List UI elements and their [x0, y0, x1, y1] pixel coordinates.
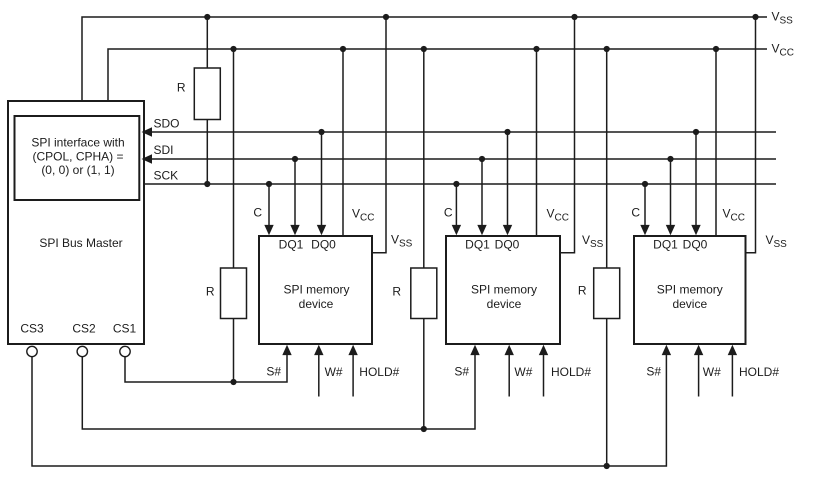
svg-text:DQ0: DQ0 [495, 238, 520, 252]
svg-text:VSS: VSS [766, 233, 788, 250]
svg-text:W#: W# [514, 365, 532, 379]
svg-text:VCC: VCC [547, 207, 569, 224]
svg-text:SCK: SCK [154, 169, 179, 183]
svg-text:HOLD#: HOLD# [551, 365, 591, 379]
svg-text:R: R [177, 81, 186, 95]
svg-text:SDO: SDO [154, 117, 180, 131]
svg-text:DQ1: DQ1 [653, 238, 678, 252]
svg-text:VCC: VCC [772, 42, 794, 59]
net VSS (top bus line with label) [82, 10, 793, 102]
wire CS3 to device 3 S# [32, 345, 671, 466]
device 3 pin W# stub [694, 345, 721, 397]
svg-text:VSS: VSS [391, 233, 413, 250]
wire CS2 to device 2 S# [82, 345, 479, 429]
device 2 pin VCC wire from VCC bus [533, 46, 569, 236]
svg-text:R: R [578, 284, 587, 298]
device 3 pin VSS wire to VSS bus [746, 14, 788, 253]
svg-text:device: device [299, 297, 334, 311]
device 3 pin DQ1 wire from SDI [666, 156, 675, 235]
svg-text:DQ0: DQ0 [311, 238, 336, 252]
svg-text:R: R [392, 285, 401, 299]
svg-text:SPI Bus Master: SPI Bus Master [39, 236, 122, 250]
device 2 pin HOLD# stub [539, 345, 592, 397]
net VCC (second bus line with label) [108, 42, 794, 102]
device 1 pin W# stub [314, 345, 343, 397]
svg-text:S#: S# [266, 365, 281, 379]
device 1 pin C wire from SCK [253, 181, 273, 235]
resistor R (device 2 S# pull-up to VCC) [392, 46, 436, 432]
svg-text:SDI: SDI [154, 143, 174, 157]
SPI memory device 1 box [259, 236, 372, 344]
device 3 pin C wire from SCK [631, 181, 649, 235]
svg-text:device: device [487, 297, 522, 311]
pin CS2 (label and terminal circle) [72, 322, 96, 357]
SPI memory device 2 box [446, 236, 560, 344]
device 3 pin DQ0 wire from SDO [691, 129, 700, 235]
resistor R (device 1 S# pull-up to VCC) [206, 46, 247, 385]
SPI memory device 3 box [634, 236, 746, 344]
device 1 pin DQ1 wire from SDI [290, 156, 299, 235]
net SDO (bus line with arrowhead into master) [142, 117, 777, 137]
svg-text:(CPOL, CPHA) =: (CPOL, CPHA) = [32, 150, 123, 164]
net SCK (bus line from master) [144, 169, 776, 185]
SPI interface inner box U1 [15, 116, 140, 200]
svg-text:SPI memory: SPI memory [283, 283, 349, 297]
svg-text:DQ1: DQ1 [279, 238, 304, 252]
svg-text:C: C [253, 206, 262, 220]
svg-text:SPI interface with: SPI interface with [31, 136, 124, 150]
svg-text:R: R [206, 285, 215, 299]
svg-text:CS3: CS3 [20, 322, 44, 336]
svg-text:CS2: CS2 [72, 322, 96, 336]
wire CS1 to device 1 S# [125, 345, 292, 382]
resistor R (device 3 S# pull-up to VCC) [578, 46, 620, 469]
svg-text:VSS: VSS [772, 10, 794, 27]
svg-text:HOLD#: HOLD# [359, 365, 399, 379]
net SDI (bus line with arrowhead into master) [142, 143, 777, 164]
device 2 pin VSS wire to VSS bus [560, 14, 604, 253]
resistor R (SCK to VSS) [177, 14, 220, 187]
svg-text:HOLD#: HOLD# [739, 365, 779, 379]
svg-text:VCC: VCC [352, 207, 374, 224]
device 2 pin DQ0 wire from SDO [503, 129, 512, 235]
svg-text:C: C [444, 206, 453, 220]
svg-text:DQ1: DQ1 [465, 238, 490, 252]
svg-text:(0, 0) or (1, 1): (0, 0) or (1, 1) [41, 163, 114, 177]
svg-text:VCC: VCC [723, 207, 745, 224]
device 3 pin HOLD# stub [728, 345, 780, 397]
device 2 pin DQ1 wire from SDI [477, 156, 486, 235]
device 1 pin HOLD# stub [348, 345, 399, 397]
device 1 pin VSS wire to VSS bus [372, 14, 413, 253]
svg-text:C: C [631, 206, 640, 220]
pin CS1 (label and terminal circle) [113, 322, 137, 357]
svg-text:SPI memory: SPI memory [471, 283, 537, 297]
svg-text:CS1: CS1 [113, 322, 137, 336]
svg-text:W#: W# [703, 365, 721, 379]
device 2 pin W# stub [505, 345, 533, 397]
device 2 pin C wire from SCK [444, 181, 461, 235]
svg-text:S#: S# [454, 365, 469, 379]
pin CS3 (label and terminal circle) [20, 322, 44, 357]
device 1 pin DQ0 wire from SDO [317, 129, 326, 235]
svg-text:device: device [672, 297, 707, 311]
svg-text:S#: S# [646, 365, 661, 379]
device 3 pin VCC wire from VCC bus [713, 46, 745, 236]
svg-text:VSS: VSS [582, 233, 604, 250]
svg-text:SPI memory: SPI memory [657, 283, 723, 297]
SPI Bus Master outer box [8, 101, 144, 344]
svg-text:W#: W# [325, 365, 343, 379]
device 1 pin VCC wire from VCC bus [340, 46, 375, 236]
svg-text:DQ0: DQ0 [683, 238, 708, 252]
